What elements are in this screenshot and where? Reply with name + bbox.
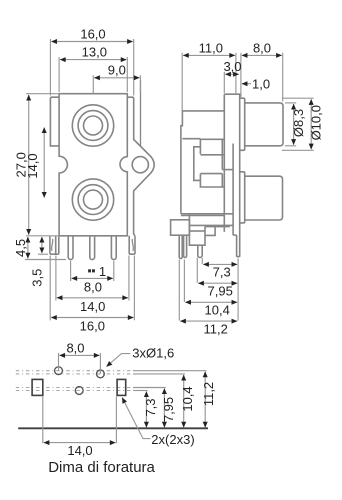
svg-text:Dima di foratura: Dima di foratura (48, 459, 155, 476)
svg-text:4,5: 4,5 (13, 239, 28, 257)
svg-text:11,2: 11,2 (204, 321, 228, 336)
side view: metal plate edge (232, 144, 234, 236)
side view: body bottom second line (181, 215, 224, 217)
dim 16,0 bottom: dimension line (51, 317, 133, 319)
dim 8,0 pins: extension lines (70, 261, 72, 281)
front view: pin 3 (111, 236, 116, 260)
drilling template: hole 2 (97, 370, 105, 378)
dim diam 8,3: dimension line (293, 104, 295, 145)
svg-text:8,0: 8,0 (253, 40, 271, 55)
side view: internal right vertical upper (221, 139, 223, 169)
front view: left bracket spring curve (52, 239, 53, 251)
svg-text:3,5: 3,5 (30, 269, 45, 287)
side view: bottom jack lip (240, 172, 245, 223)
dim 8,0 pins: dimension line (72, 277, 113, 279)
dim 7,95 side: dimension line (198, 282, 237, 284)
dim 3,0: extension lines (223, 72, 225, 93)
dim 10,4 template: dimension line (183, 375, 185, 427)
side view: internal contact top box bottom (200, 154, 223, 156)
side view: pcb pin left pair line1 (179, 235, 182, 258)
dim 16,0 top: extension lines (49, 39, 51, 96)
svg-text:7,95: 7,95 (208, 284, 233, 299)
svg-text:14,0: 14,0 (67, 443, 92, 458)
dim 8,0 side: dimension line (242, 54, 282, 56)
drilling template: hole 1 (55, 367, 63, 375)
drilling template: hole row line 7.95 (16, 387, 133, 389)
svg-text:3,0: 3,0 (223, 59, 241, 74)
side view: lower body line (189, 224, 233, 226)
svg-text:Ø10,0: Ø10,0 (309, 105, 324, 140)
dim 9,0: dimension line (94, 77, 139, 79)
dim 14,0 bottom: extension lines (55, 256, 57, 301)
side view: internal contact bottom box top (200, 173, 222, 175)
dim 11,2 side: extension line (178, 260, 180, 321)
dim 1,0 leader (242, 83, 251, 85)
dim 4,5: bottom extension (25, 259, 66, 261)
row extension line 10,4 (133, 373, 185, 375)
svg-text:13,0: 13,0 (82, 44, 107, 59)
dim 4,5: dimension line (27, 237, 29, 258)
dim 3,5: dimension line (41, 237, 43, 253)
drilling template: hole 3 (75, 387, 83, 395)
front view: right step column and mounting ear (127, 97, 154, 236)
dim 3,0: dimension line (225, 73, 238, 75)
svg-text:1,0: 1,0 (252, 76, 270, 91)
svg-text:8,0: 8,0 (84, 280, 102, 295)
svg-text:14,0: 14,0 (80, 299, 105, 314)
dim 14,0 template: dimension line (44, 442, 116, 444)
front view: pin 2 (90, 236, 95, 260)
side view: internal contact left bracket (194, 147, 201, 181)
svg-text:8,0: 8,0 (66, 341, 84, 356)
side view: flange left edge (223, 94, 225, 232)
dim 11,0: extension lines (181, 53, 183, 111)
front view: right bracket spring curve (132, 239, 133, 251)
svg-text:1: 1 (99, 264, 106, 279)
dim diam 10,0: dimension line (310, 99, 312, 149)
dim 8,0 template: dimension line (60, 354, 100, 356)
front view: left bracket fold line (55, 236, 57, 254)
side view: bottom jack barrel (245, 176, 283, 220)
front view: right bottom bracket (129, 236, 135, 254)
row extension line 7,3 (133, 390, 148, 392)
dim 13,0 top: extension lines (58, 57, 60, 92)
side view: internal contact top box (200, 139, 223, 154)
side view: pcb pin left pair line2 (184, 235, 187, 257)
svg-text:16,0: 16,0 (80, 319, 105, 334)
side view: top jack barrel (245, 103, 283, 146)
dim 8,0 side: extension lines (240, 53, 242, 97)
svg-text:11,2: 11,2 (201, 382, 216, 406)
front view: top RCA jack inner ring (84, 116, 103, 135)
front view: left bottom bracket (50, 236, 59, 254)
side view: metal plate bottom (233, 234, 237, 236)
dim 8,0 template: extension lines (58, 353, 60, 371)
svg-text:Ø8,3: Ø8,3 (291, 109, 306, 137)
dim 11,0: dimension line (183, 54, 235, 56)
dim diam 10,0: extension lines (282, 97, 314, 99)
dimension graphics (25, 39, 314, 443)
front view: left top step (50, 97, 59, 146)
front view: top RCA jack outer ring (72, 105, 113, 146)
dim 7,95 template: dimension line (163, 389, 165, 428)
dim 7,95 side: extension line (196, 258, 198, 283)
drilling template: hole row line 7.3 (16, 390, 133, 392)
dim 14,0 bottom: dimension line (57, 297, 128, 299)
dim 16,0 top: dimension line (51, 41, 132, 43)
svg-text:10,4: 10,4 (205, 302, 230, 317)
side view: top jack lip (240, 98, 245, 150)
svg-text:16,0: 16,0 (80, 26, 105, 41)
dim 16,0 bottom: extension lines (49, 256, 51, 321)
side view: bracket leg column (189, 214, 205, 245)
svg-text:2x(2x3): 2x(2x3) (151, 432, 194, 447)
drilling template: hole row line 10.4 (16, 373, 133, 375)
front view: pin 1 (68, 236, 73, 260)
drilling template: hole row line 11.2 (16, 370, 133, 372)
front view: main body outline (59, 94, 127, 236)
svg-text:11,0: 11,0 (199, 40, 223, 55)
dim 13,0 top: dimension line (60, 59, 126, 61)
dim 10,4 side: dimension line (185, 301, 237, 303)
label 2x(2x3) leader (122, 398, 150, 439)
dim 3,5: bottom extension (38, 253, 48, 255)
side view: internal right vertical lower (221, 174, 223, 187)
side view: flange front plate (224, 94, 239, 257)
side view: internal line to flange (222, 169, 233, 171)
side view: lower step line right (215, 226, 230, 228)
side view: lower step block (205, 227, 215, 236)
front view: rear plate edge line right (140, 80, 142, 146)
front view: ear hole (132, 157, 148, 173)
svg-text:7,3: 7,3 (143, 398, 158, 416)
front view: bottom RCA jack inner ring (84, 190, 103, 209)
side view: internal contact bottom box (200, 174, 223, 187)
drilling template: right slot (117, 379, 126, 395)
svg-text:9,0: 9,0 (108, 63, 126, 78)
dim 14,0 template: extension lines (42, 397, 44, 444)
svg-text:10,4: 10,4 (180, 386, 195, 411)
row extension line 11,2 (133, 370, 207, 372)
side view: internal top line (182, 138, 200, 140)
dim 7,3 side: extension lines (201, 258, 203, 264)
front view: top RCA jack middle ring (78, 111, 108, 141)
dim 7,3 template: dimension line (145, 392, 147, 428)
pin width 1 arrows (88, 269, 91, 272)
dim 7,3 side: dimension line (203, 263, 237, 265)
drilling template: left slot (32, 379, 43, 395)
side view: body outline (181, 111, 224, 214)
drilling template: board edge line (18, 427, 208, 429)
svg-text:14,0: 14,0 (25, 153, 40, 178)
front view: bottom RCA jack middle ring (78, 185, 108, 215)
front view: bottom RCA jack outer ring (72, 179, 113, 220)
svg-text:7,95: 7,95 (161, 397, 176, 422)
side view: bracket leg inner line (189, 230, 205, 232)
dim 27,0: extension lines (26, 93, 60, 95)
dim 14,0 left: dimension line (43, 128, 45, 198)
side view: rear terminal tab (171, 220, 190, 235)
side view: body bottom line (181, 213, 233, 215)
label 3x diam 1,6 leader (107, 354, 131, 367)
row extension line 7,95 (133, 387, 166, 389)
svg-text:7,3: 7,3 (213, 265, 231, 280)
side view: bracket pin tip (198, 245, 202, 257)
dim 10,4 side: extension line (183, 260, 185, 302)
dim 11,2 side: dimension line (180, 320, 237, 322)
svg-text:3xØ1,6: 3xØ1,6 (132, 346, 174, 361)
dim 27,0: dimension line (28, 95, 30, 235)
side view: panel leg (237, 235, 240, 257)
dim 11,2 template: dimension line (204, 372, 206, 428)
dim 9,0: extension lines (92, 75, 94, 93)
dim diam 8,3: extension lines (285, 102, 296, 104)
